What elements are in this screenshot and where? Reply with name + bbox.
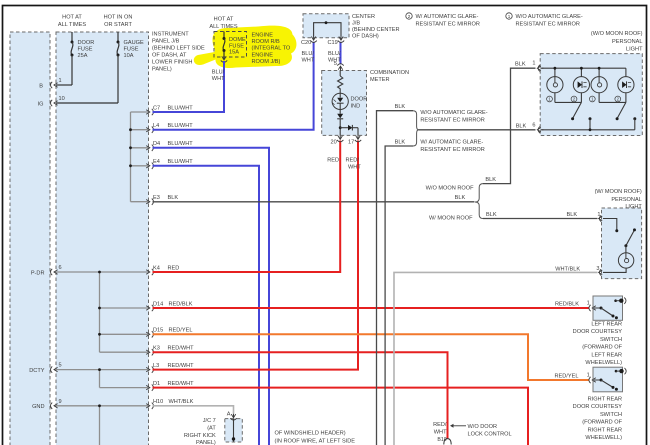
J/C 7 box (225, 419, 243, 442)
meter pin 17 connector (arrow down) (357, 135, 359, 139)
svg-text:W/O AUTOMATIC GLARE-: W/O AUTOMATIC GLARE- (516, 14, 583, 20)
wire RED/WHT K3 to B10 (153, 352, 448, 438)
svg-text:15A: 15A (229, 50, 239, 56)
svg-text:FUSE: FUSE (78, 47, 93, 53)
svg-text:(BEHIND CENTER: (BEHIND CENTER (352, 27, 400, 33)
engine room R/B dome fuse box (214, 32, 247, 58)
svg-text:K3: K3 (153, 346, 160, 352)
svg-text:2: 2 (408, 14, 411, 19)
svg-text:GND: GND (32, 404, 44, 410)
svg-text:WHT/BLK: WHT/BLK (555, 266, 580, 272)
highlight over dome fuse / engine room text (194, 26, 297, 68)
svg-text:BLU/WHT: BLU/WHT (168, 123, 194, 129)
wire BLU/WHT C7 to dome fuse (153, 61, 225, 112)
svg-text:INSTRUMENT: INSTRUMENT (152, 32, 189, 38)
svg-text:OF DASH, AT: OF DASH, AT (152, 53, 187, 59)
svg-text:FUSE: FUSE (124, 47, 139, 53)
right rear switch case ground (615, 370, 618, 373)
svg-text:1: 1 (508, 14, 511, 19)
svg-text:E3: E3 (153, 195, 160, 201)
svg-text:ROOM J/B): ROOM J/B) (252, 59, 281, 65)
wire fuse DOOR to pin B (56, 84, 72, 86)
svg-text:PANEL): PANEL) (152, 67, 172, 73)
svg-text:COMBINATION: COMBINATION (370, 70, 409, 76)
bus DCTY branch (56, 369, 149, 371)
center J/B box (303, 14, 349, 38)
svg-text:(BEHIND LEFT SIDE: (BEHIND LEFT SIDE (152, 46, 205, 52)
gauge fuse 10A (117, 32, 119, 42)
svg-text:WHT: WHT (434, 430, 447, 436)
svg-text:BLU/WHT: BLU/WHT (168, 159, 194, 165)
J/C 7 connector A (arrow down) (233, 414, 235, 418)
svg-text:(INTEGRAL TO: (INTEGRAL TO (252, 46, 291, 52)
svg-text:B10: B10 (437, 437, 446, 443)
wire RED/YEL D15 to right rear switch (153, 334, 590, 380)
connector pin D15 (146, 332, 150, 336)
connector pin B (J/B boundary) (51, 82, 53, 88)
svg-text:BLK: BLK (515, 62, 526, 68)
svg-text:RED/BLK: RED/BLK (555, 302, 579, 308)
left rear door courtesy switch box (593, 296, 623, 320)
connector pin DCTY (J/B boundary) (51, 366, 53, 372)
svg-text:17: 17 (348, 140, 354, 146)
svg-text:LIGHT: LIGHT (625, 204, 642, 210)
svg-text:B: B (39, 83, 43, 89)
connector B10 (444, 439, 451, 445)
note 2 W/ AUTOMATIC GLARE-RESISTANT EC MIRROR (406, 13, 412, 19)
svg-text:RED/YEL: RED/YEL (555, 374, 579, 380)
meter pin 5 connector (arrow up) (340, 66, 342, 70)
svg-text:WHT: WHT (212, 76, 225, 82)
svg-text:(FORWARD OF: (FORWARD OF (582, 420, 622, 426)
connector pin L4 (146, 128, 150, 132)
wire BLU/WHT C19 to meter pin 5 (340, 42, 342, 65)
driver side J/B box (left) (10, 32, 50, 445)
svg-text:LIGHT: LIGHT (626, 47, 643, 53)
svg-text:BLU/WHT: BLU/WHT (168, 141, 194, 147)
svg-text:D1: D1 (153, 381, 160, 387)
svg-text:10A: 10A (124, 53, 134, 59)
connector pin H10 (146, 404, 150, 408)
svg-text:RIGHT REAR: RIGHT REAR (588, 427, 622, 433)
svg-text:WHEELWELL): WHEELWELL) (585, 435, 622, 441)
svg-text:LOWER FINISH: LOWER FINISH (152, 60, 192, 66)
svg-text:9: 9 (59, 399, 62, 405)
svg-text:DOME: DOME (229, 37, 246, 43)
personal light (w/ moon roof) box (602, 208, 642, 279)
svg-text:BLK: BLK (485, 177, 496, 183)
svg-text:W/O AUTOMATIC GLARE-: W/O AUTOMATIC GLARE- (420, 110, 487, 116)
svg-text:ALL TIMES: ALL TIMES (209, 24, 238, 30)
svg-text:HOT AT: HOT AT (214, 17, 234, 23)
connector pin D1 (146, 385, 150, 389)
svg-text:(W/O MOON ROOF): (W/O MOON ROOF) (591, 31, 643, 37)
svg-text:W/ AUTOMATIC GLARE-: W/ AUTOMATIC GLARE- (416, 14, 479, 20)
svg-text:CENTER: CENTER (352, 14, 375, 20)
connector pin K4 (146, 270, 150, 274)
junction dots P-DR branch (98, 271, 101, 274)
svg-text:LEFT REAR: LEFT REAR (591, 322, 622, 328)
svg-text:5: 5 (59, 363, 62, 369)
svg-text:PANEL J/B: PANEL J/B (152, 39, 180, 45)
svg-text:H10: H10 (153, 399, 163, 405)
left rear switch case ground (614, 299, 617, 302)
svg-text:20: 20 (331, 140, 337, 146)
svg-text:WHT: WHT (302, 58, 315, 64)
switch arm right (617, 102, 626, 118)
fixed contact right (633, 117, 636, 120)
svg-text:BLK: BLK (516, 123, 527, 129)
svg-text:IG: IG (38, 101, 44, 107)
wire BLK w/o moon roof branch to personal light pin 1 (483, 68, 536, 183)
bulb lamp 1 (547, 77, 563, 93)
svg-text:GAUGE: GAUGE (124, 40, 144, 46)
svg-text:P-DR: P-DR (31, 270, 45, 276)
circled numbers under lamps (547, 96, 553, 102)
center J/B internal bus (314, 23, 341, 36)
wire BLU/WHT E4 down (153, 166, 260, 445)
svg-text:ENGINE: ENGINE (252, 52, 274, 58)
svg-text:D15: D15 (153, 328, 163, 334)
svg-text:BLU/: BLU/ (328, 51, 341, 57)
connector pin P-DR (J/B boundary) (51, 269, 53, 275)
svg-text:DOOR: DOOR (351, 96, 368, 102)
svg-text:1: 1 (597, 212, 600, 218)
svg-text:D4: D4 (153, 141, 160, 147)
svg-text:K4: K4 (153, 265, 160, 271)
svg-text:W/O MOON ROOF: W/O MOON ROOF (426, 185, 474, 191)
wire RED meter pin20 to K4 (153, 141, 341, 273)
svg-text:DOOR COURTESY: DOOR COURTESY (573, 329, 623, 335)
svg-text:W/ MOON ROOF: W/ MOON ROOF (429, 216, 473, 222)
svg-text:6: 6 (59, 265, 62, 271)
svg-text:WHT: WHT (348, 165, 361, 171)
W/O DOOR LOCK CONTROL note with arrow (451, 425, 466, 427)
fixed contact left (589, 117, 592, 120)
svg-text:J/C 7: J/C 7 (203, 418, 216, 424)
brace glare mirror wires (413, 111, 419, 146)
diode to pin 17 (right) (340, 127, 348, 129)
wire BLK A (w/o auto glare mirror) (377, 111, 414, 445)
wire fuse GAUGE to pin IG (56, 102, 118, 104)
brace moon roof split (475, 184, 483, 219)
combination meter box (322, 71, 367, 136)
junction dots on BLU/WHT bus (129, 128, 132, 131)
svg-text:D14: D14 (153, 301, 163, 307)
svg-text:J/B: J/B (352, 21, 360, 27)
svg-text:W/O DOOR: W/O DOOR (468, 424, 498, 430)
svg-text:DOOR COURTESY: DOOR COURTESY (573, 404, 623, 410)
svg-text:RED/WHT: RED/WHT (168, 363, 195, 369)
J/C 7 internal junction (233, 419, 235, 442)
svg-text:OR START: OR START (104, 22, 132, 28)
svg-text:3: 3 (596, 266, 599, 272)
connector pin E3 (146, 200, 150, 204)
svg-text:BLK: BLK (567, 212, 578, 218)
wire BLU/WHT L4 to C20 (153, 42, 314, 130)
svg-text:ALL TIMES: ALL TIMES (58, 22, 87, 28)
wire WHT/BLK from bottom to personal light pin 3 (394, 272, 598, 445)
svg-text:25A: 25A (78, 53, 88, 59)
svg-text:1: 1 (587, 372, 590, 378)
svg-text:A: A (227, 411, 231, 417)
svg-text:RESISTANT EC MIRROR: RESISTANT EC MIRROR (420, 147, 484, 153)
bus P-DR branch inside J/B (56, 271, 149, 273)
svg-text:ROOM R/B: ROOM R/B (252, 39, 281, 45)
personal light 2 bulb to pin 3 (603, 268, 626, 272)
svg-text:L3: L3 (153, 363, 159, 369)
LED lamp 4 (618, 77, 634, 93)
wire WHT/BLK H10 to J/C7 (153, 406, 234, 414)
svg-text:PERSONAL: PERSONAL (612, 39, 642, 45)
svg-text:HOT IN ON: HOT IN ON (104, 15, 133, 21)
wire BLK B (w/ auto glare mirror) (385, 146, 413, 445)
svg-text:PANEL): PANEL) (196, 440, 216, 445)
svg-text:E4: E4 (153, 159, 160, 165)
svg-text:L4: L4 (153, 123, 159, 129)
connector pin E4 (146, 164, 150, 168)
connector C19 (arrow down) (340, 36, 342, 40)
connector C20 (arrow down) (313, 36, 315, 40)
svg-text:METER: METER (370, 77, 390, 83)
wire BLK w/ moon roof branch to personal light 2 pin 1 (483, 218, 598, 220)
svg-text:RIGHT KICK: RIGHT KICK (184, 433, 216, 439)
wire BLU/WHT D4 down (153, 148, 270, 445)
svg-text:RED/BLK: RED/BLK (169, 301, 193, 307)
right rear switch pin 1 connector (592, 378, 596, 382)
svg-text:1: 1 (59, 78, 62, 84)
svg-text:ENGINE: ENGINE (252, 33, 274, 39)
personal light 1 pin 1 connector (541, 67, 544, 69)
bus BLU/WHT feed inside instrument panel J/B (130, 112, 132, 202)
LED DOOR IND (339, 90, 341, 93)
svg-text:BLK: BLK (455, 195, 466, 201)
junction node center J/B (325, 21, 328, 24)
right rear door courtesy switch box (593, 367, 623, 392)
personal light (w/o moon roof) box (540, 54, 642, 136)
svg-text:LEFT REAR: LEFT REAR (591, 352, 622, 358)
dome fuse output connector (223, 57, 225, 60)
right rear switch contacts (594, 379, 601, 381)
svg-text:C20: C20 (301, 40, 311, 46)
svg-text:BLU/: BLU/ (302, 51, 315, 57)
junction dots top bus (554, 67, 557, 70)
wire RED/WHT D1 down (153, 388, 529, 445)
svg-text:LOCK CONTROL: LOCK CONTROL (468, 431, 512, 437)
svg-text:RESISTANT EC MIRROR: RESISTANT EC MIRROR (416, 22, 480, 28)
svg-text:6: 6 (532, 122, 535, 128)
svg-text:HOT AT: HOT AT (62, 15, 82, 21)
resistor in meter (339, 71, 341, 77)
svg-text:DOOR: DOOR (78, 40, 95, 46)
personal light 2 pin 1 connector (599, 216, 603, 220)
svg-text:C19: C19 (328, 40, 338, 46)
svg-text:SWITCH: SWITCH (600, 337, 622, 343)
LED lamp 2 (573, 77, 589, 93)
bulb lamp 3 (591, 77, 607, 93)
svg-text:W/ AUTOMATIC GLARE-: W/ AUTOMATIC GLARE- (420, 139, 483, 145)
connector pin D4 (146, 146, 150, 150)
svg-text:1: 1 (587, 300, 590, 306)
dome fuse 15A (223, 32, 225, 39)
diode in meter (down) (337, 114, 343, 119)
svg-text:OF WINDSHIELD HEADER): OF WINDSHIELD HEADER) (275, 431, 346, 437)
svg-text:(AT: (AT (207, 426, 216, 432)
connector pin K3 (146, 350, 150, 354)
svg-text:RIGHT REAR: RIGHT REAR (588, 397, 622, 403)
svg-text:PERSONAL: PERSONAL (611, 197, 641, 203)
bus GND wire (56, 405, 149, 407)
svg-text:OF DASH): OF DASH) (352, 34, 379, 40)
svg-text:(W/ MOON ROOF): (W/ MOON ROOF) (595, 189, 642, 195)
svg-text:BLK: BLK (395, 140, 406, 146)
svg-text:IND: IND (351, 103, 361, 109)
svg-text:1: 1 (532, 61, 535, 67)
svg-text:RESISTANT EC MIRROR: RESISTANT EC MIRROR (516, 22, 580, 28)
svg-text:RESISTANT EC MIRROR: RESISTANT EC MIRROR (420, 118, 484, 124)
svg-text:BLK: BLK (395, 104, 406, 110)
lamp bottom bus right pair (598, 93, 600, 103)
svg-text:BLK: BLK (486, 212, 497, 218)
connector pin D14 (146, 306, 150, 310)
note 1 W/O AUTOMATIC GLARE-RESISTANT EC MIRROR (506, 13, 512, 19)
personal light 2 switch (603, 219, 617, 231)
wire BLK E3 to brace (153, 201, 475, 203)
svg-text:RED/WHT: RED/WHT (168, 346, 195, 352)
svg-text:BLK: BLK (168, 195, 179, 201)
svg-text:(FORWARD OF: (FORWARD OF (582, 345, 622, 351)
svg-text:RED/: RED/ (433, 422, 447, 428)
connector pin IG (J/B boundary) (51, 100, 53, 106)
switch arm left (573, 102, 582, 118)
svg-text:5: 5 (334, 61, 337, 67)
personal light 1 pin 6 connector (541, 129, 544, 131)
svg-text:SWITCH: SWITCH (600, 412, 622, 418)
left rear switch pin 1 connector (592, 306, 596, 310)
personal light 1 bottom bus to pin 6 (542, 129, 635, 131)
svg-text:BLU/: BLU/ (212, 70, 225, 76)
svg-text:10: 10 (59, 96, 65, 102)
svg-text:DCTY: DCTY (29, 368, 44, 374)
wire RED/WHT meter pin17 to L3 (153, 141, 359, 370)
svg-text:RED/: RED/ (346, 158, 360, 164)
personal light 2 pin 3 connector (599, 270, 603, 274)
svg-text:WHEELWELL): WHEELWELL) (585, 360, 622, 366)
personal light 2 bulb (618, 253, 633, 268)
connector pin GND (J/B boundary) (51, 403, 53, 409)
svg-text:C7: C7 (153, 105, 160, 111)
door fuse 25A (71, 32, 73, 42)
svg-text:RED/WHT: RED/WHT (168, 381, 195, 387)
lamp drops top (554, 68, 556, 76)
svg-text:(IN ROOF WIRE, AT LEFT SIDE: (IN ROOF WIRE, AT LEFT SIDE (275, 439, 356, 445)
svg-text:WHT/BLK: WHT/BLK (169, 399, 194, 405)
left rear switch contacts (594, 307, 601, 309)
meter pin 20 connector (arrow down) (339, 135, 341, 139)
svg-text:BLU/WHT: BLU/WHT (168, 105, 194, 111)
wire BLK brace to personal light pin 6 (419, 129, 536, 131)
svg-text:RED: RED (168, 265, 180, 271)
junction node meter (339, 126, 342, 129)
connector pin C7 (146, 110, 150, 114)
wire RED/BLK D14 to left rear switch (153, 307, 590, 309)
lamp bottom bus left pair (554, 93, 556, 103)
connector pin L3 (146, 367, 150, 371)
svg-text:RED/YEL: RED/YEL (169, 328, 193, 334)
svg-text:RED: RED (327, 158, 339, 164)
personal light 1 top bus (542, 67, 626, 69)
instrument panel J/B box (56, 32, 149, 445)
